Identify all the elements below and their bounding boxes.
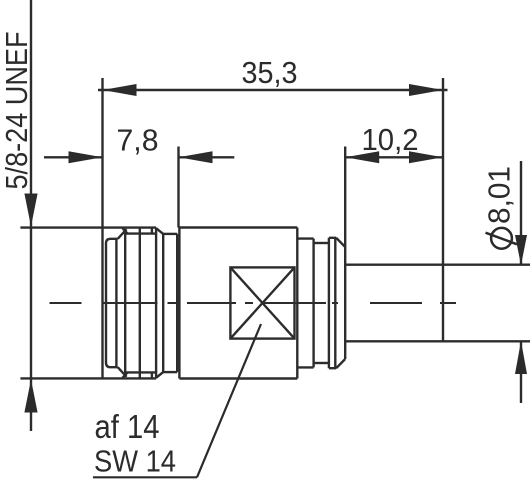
extension line 7,8 right [177, 147, 179, 228]
arrowhead 7,8 left [69, 151, 103, 163]
svg-text:8,01: 8,01 [482, 166, 517, 224]
ring1 bottom ledge [297, 366, 313, 368]
svg-text:10,2: 10,2 [362, 122, 419, 157]
diameter symbol [486, 228, 518, 249]
centerline [50, 302, 457, 304]
collar right face + 10,2 extension line [344, 147, 346, 360]
leader line to hex box [197, 324, 261, 477]
svg-text:5/8-24 UNEF: 5/8-24 UNEF [0, 32, 34, 190]
ring1 top ledge [297, 237, 313, 239]
shaft bottom edge [345, 340, 530, 342]
nut right chamfer top [156, 228, 163, 234]
dimension line 35,3 [98, 89, 448, 91]
nut right ledge top [163, 233, 177, 235]
svg-text:35,3: 35,3 [242, 55, 298, 90]
shaft top edge [345, 264, 530, 266]
ring1 right edge [312, 239, 314, 368]
collar bottom flat [329, 367, 336, 369]
nut short edge top [151, 228, 153, 233]
arrowhead 35,3 left [103, 84, 137, 96]
nut cone edge up top [118, 229, 127, 239]
dimension line 7,8 left tail [44, 156, 103, 158]
nut cone edge down top [123, 228, 128, 234]
hex box diagonal 2 [230, 267, 294, 338]
nut vertical v6 [162, 234, 164, 372]
nut vertical v3 [124, 230, 126, 377]
nut cone edge down bottom [123, 372, 128, 378]
hex box diagonal 1 [230, 267, 294, 338]
collar top flat [329, 237, 336, 239]
leader underline SW 14 [93, 476, 197, 478]
groove bottom floor [314, 362, 329, 364]
collar inner vertical [334, 238, 336, 368]
collar bottom chamfer [336, 359, 345, 368]
extension line right (ref plane) [442, 78, 444, 341]
nut knurl inner bottom line [125, 371, 156, 373]
nut vertical v5 [155, 228, 157, 379]
svg-text:SW 14: SW 14 [94, 445, 176, 479]
arrowhead 35,3 right [409, 84, 443, 96]
dimension line 5/8 [30, 0, 32, 431]
arrowhead 10,2 right [409, 151, 443, 163]
thread section bottom edge + left extension line [20, 377, 156, 379]
thread section top edge + left extension line [20, 226, 156, 228]
dia dimension line lower [520, 342, 522, 403]
nut right chamfer bottom [156, 372, 163, 378]
arrowhead 7,8 right [179, 151, 213, 163]
svg-text:af 14: af 14 [95, 408, 160, 445]
nut right ledge bottom [163, 371, 177, 373]
hex section box [230, 267, 294, 338]
arrowhead 5/8 down [24, 194, 37, 227]
arrowhead dia up [515, 341, 527, 374]
dia dimension line upper [520, 161, 522, 264]
nut vertical v4 [139, 228, 141, 379]
body outline [179, 228, 297, 379]
dimension line 10,2 [345, 156, 443, 158]
nut cone edge up bottom [118, 367, 127, 377]
arrowhead dia down [515, 235, 527, 265]
arrowhead 10,2 left [345, 151, 379, 163]
nut front capsule [106, 239, 118, 367]
nut vertical v2 [115, 239, 117, 367]
dimension line 7,8 right tail [179, 156, 235, 158]
nut short edge bottom [151, 372, 153, 377]
nut front face + upper extension line [101, 78, 103, 378]
nut knurl inner top line [125, 232, 156, 234]
arrowhead 5/8 up [24, 380, 37, 413]
groove top floor [314, 242, 329, 244]
collar top chamfer [336, 238, 345, 247]
svg-text:7,8: 7,8 [117, 123, 159, 158]
nut right edge [176, 234, 178, 372]
collar left edge [328, 238, 330, 368]
